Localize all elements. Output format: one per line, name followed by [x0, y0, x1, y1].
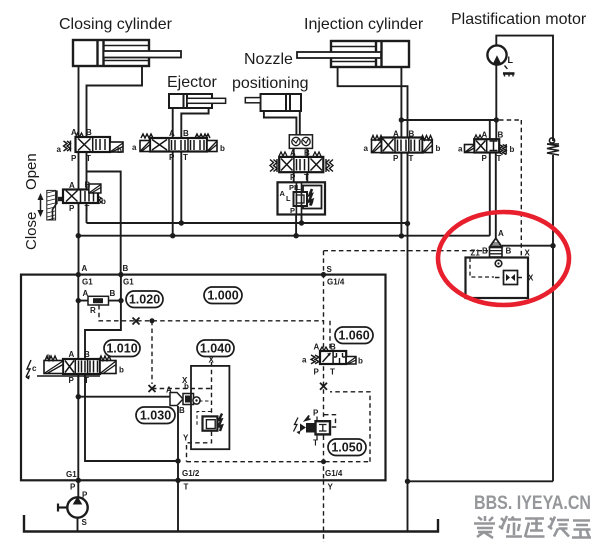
- dashed X horizontal to 1.040: [152, 388, 212, 390]
- junction injection A / y120 line: [399, 117, 404, 122]
- svg-text:P: P: [393, 154, 399, 163]
- wire nozzle B stub: [306, 148, 308, 157]
- svg-text:Z1: Z1: [471, 249, 481, 258]
- svg-text:R: R: [90, 306, 96, 315]
- svg-text:a: a: [302, 356, 307, 365]
- svg-text:a: a: [364, 144, 369, 153]
- svg-text:X: X: [525, 249, 531, 258]
- wire bus1: [87, 222, 408, 224]
- svg-text:B: B: [498, 131, 504, 140]
- wire nozzle valve to reducer: [294, 172, 308, 182]
- svg-text:B: B: [110, 289, 116, 298]
- svg-text:T: T: [409, 154, 414, 163]
- svg-text:A: A: [69, 350, 75, 359]
- dashed upper right vertical: [520, 120, 522, 258]
- svg-text:G1/2: G1/2: [182, 469, 200, 478]
- svg-text:1.030: 1.030: [140, 409, 171, 423]
- wire close-open valve T to bus1: [86, 203, 88, 223]
- junction P-bus / ejector T: [179, 220, 184, 225]
- svg-text:b: b: [220, 144, 225, 153]
- stack: [490, 248, 503, 258]
- closing cylinder: [73, 40, 181, 66]
- junction 1.020 A: [76, 298, 81, 303]
- svg-text:P: P: [482, 154, 488, 163]
- svg-text:Nozzle: Nozzle: [244, 51, 293, 68]
- svg-text:Closing cylinder: Closing cylinder: [59, 16, 173, 33]
- wire injection left port over to valve B: [338, 67, 408, 138]
- wire bottom right horizontal: [408, 480, 554, 482]
- tag oval 1.020: [126, 291, 163, 308]
- dashed B line to 1.060: [329, 321, 331, 351]
- svg-text:A: A: [71, 128, 77, 137]
- tag oval 1.050: [328, 439, 366, 456]
- svg-text:A: A: [498, 229, 504, 238]
- svg-text:1.060: 1.060: [338, 329, 369, 343]
- wire A-line x78.5 top to block: [78, 66, 80, 275]
- wire valve5 A stub: [489, 120, 491, 139]
- svg-text:Open: Open: [23, 153, 40, 190]
- wire valve5 B down to poppet: [495, 153, 497, 239]
- junction 1.020 B: [118, 298, 123, 303]
- injection cylinder: [297, 41, 409, 67]
- svg-text:L: L: [286, 194, 291, 203]
- wire 1.030 B down: [177, 406, 179, 461]
- wire reducer to bus1: [301, 215, 303, 224]
- wire valve5 P down to bus2 corner: [489, 153, 491, 236]
- svg-text:Plastification motor: Plastification motor: [451, 11, 587, 28]
- wire feed to 1.030: [78, 396, 170, 398]
- junction T-bus / injection P: [399, 233, 404, 238]
- svg-text:c: c: [32, 364, 37, 373]
- svg-text:Y: Y: [328, 483, 334, 492]
- svg-text:1.020: 1.020: [129, 293, 160, 307]
- svg-text:B: B: [183, 129, 189, 138]
- wire injection valve T down to bottom: [407, 153, 409, 482]
- svg-text:B: B: [86, 128, 92, 137]
- svg-text:Injection cylinder: Injection cylinder: [304, 16, 424, 33]
- junction bottom drain corner: [405, 479, 410, 484]
- svg-text:P: P: [290, 206, 295, 215]
- svg-text:B: B: [330, 343, 336, 352]
- svg-text:B: B: [482, 247, 488, 256]
- svg-text:BBS. IYEYA.CN: BBS. IYEYA.CN: [474, 493, 591, 514]
- dashed into 1.040 relief: [211, 362, 213, 417]
- junction 1.030 feed: [76, 394, 81, 399]
- svg-text:P: P: [71, 154, 77, 163]
- svg-text:A: A: [393, 130, 399, 139]
- dashed check valve X line: [495, 277, 525, 279]
- tag oval 1.060: [335, 327, 373, 344]
- svg-text:L: L: [508, 55, 514, 65]
- svg-text:b: b: [117, 146, 122, 155]
- wire ejector valve T to bus1: [180, 152, 182, 223]
- svg-text:1.040: 1.040: [200, 342, 231, 356]
- poppet triangle: [490, 238, 502, 247]
- svg-text:T: T: [85, 204, 90, 213]
- svg-text:1.050: 1.050: [331, 441, 362, 455]
- plug X on R pilot line: [133, 318, 140, 325]
- wire bus2: [78, 235, 490, 237]
- svg-text:P: P: [314, 368, 320, 377]
- junction motor line / y120 line: [494, 117, 499, 122]
- junction right rail / check line: [550, 243, 555, 248]
- tag oval 1.040: [197, 340, 234, 357]
- svg-text:T: T: [84, 376, 89, 385]
- svg-text:T: T: [497, 154, 502, 163]
- svg-text:A: A: [482, 131, 488, 140]
- svg-text:T: T: [183, 153, 188, 162]
- wire pump P stub: [77, 480, 79, 497]
- svg-text:b: b: [101, 197, 106, 206]
- svg-text:P: P: [82, 491, 88, 500]
- wire x407 to tank: [407, 481, 409, 531]
- wire injection right port to valve A: [400, 67, 402, 138]
- tag oval 1.000: [204, 287, 242, 304]
- junction 1.030 B drain: [175, 458, 180, 463]
- svg-text:T: T: [184, 483, 189, 492]
- svg-text:1.010: 1.010: [106, 342, 137, 356]
- svg-text:S: S: [327, 265, 333, 274]
- wire pump to tank: [77, 518, 79, 532]
- plug X at 1.030 pilot: [149, 385, 156, 392]
- wire motor down to valve: [495, 65, 497, 140]
- svg-text:A: A: [314, 343, 320, 352]
- svg-text:G1: G1: [66, 470, 77, 479]
- watermark chinese 爱液压论坛: [474, 516, 591, 538]
- wire ejector left port down: [172, 108, 174, 137]
- tank line: [24, 515, 438, 532]
- inner check square: [504, 271, 518, 285]
- svg-text:B: B: [123, 264, 129, 273]
- svg-text:S: S: [82, 518, 88, 527]
- double arrow: [38, 193, 44, 217]
- X plug marks group: [133, 318, 328, 393]
- svg-text:T: T: [330, 368, 335, 377]
- dashed 1.050 P detail: [324, 415, 336, 427]
- svg-text:B: B: [179, 406, 185, 415]
- svg-text:Close: Close: [23, 212, 40, 250]
- dashed Z1 horizontal: [324, 250, 489, 252]
- dashed S line vertical: [323, 251, 325, 479]
- dashed branch down to 1.030 X: [151, 321, 153, 384]
- svg-text:A: A: [169, 129, 175, 138]
- wire injection valve P down long: [400, 153, 402, 236]
- wire nozzle left port: [264, 111, 297, 135]
- svg-text:b: b: [119, 366, 124, 375]
- svg-text:P: P: [69, 204, 75, 213]
- wire ejector valve P to bus2: [172, 152, 174, 236]
- svg-text:B: B: [304, 149, 310, 158]
- svg-text:P: P: [69, 376, 75, 385]
- junction dots group: [76, 117, 556, 484]
- dashed R pilot from 1.020: [99, 305, 324, 321]
- wire right rail below coil: [552, 155, 554, 481]
- dashed long bottom line: [187, 461, 371, 463]
- junction port B: [118, 272, 123, 277]
- valve close-open: [63, 184, 102, 204]
- tag oval 1.030: [136, 407, 175, 424]
- dashed relief to Y: [187, 432, 212, 462]
- manifold block outline: [21, 275, 386, 481]
- inner dashed pilot: [470, 258, 494, 277]
- svg-text:X: X: [182, 376, 188, 385]
- wire G1/2 to tank: [177, 480, 179, 531]
- svg-text:1.000: 1.000: [207, 289, 238, 303]
- wall hatch symbol: [47, 190, 64, 220]
- svg-text:B: B: [409, 130, 415, 139]
- junction P-bus / injection T: [405, 221, 410, 226]
- svg-text:B: B: [506, 247, 512, 256]
- svg-text:P: P: [290, 173, 296, 182]
- junction port G1: [76, 478, 81, 483]
- wire close-open valve B up via y171 to port B: [87, 172, 121, 275]
- junction T-bus / A-line: [76, 233, 81, 238]
- coil / flow restrictor on right rail: [547, 138, 559, 155]
- wire A-line inside block to pump: [77, 275, 79, 481]
- svg-text:G1: G1: [82, 278, 93, 287]
- svg-text:A: A: [69, 181, 75, 190]
- svg-text:a: a: [57, 145, 62, 154]
- svg-text:b: b: [436, 144, 441, 153]
- junction pilot R line: [150, 318, 155, 323]
- svg-text:P: P: [70, 483, 76, 492]
- ejector cylinder: [169, 94, 226, 108]
- svg-text:a: a: [132, 143, 137, 152]
- svg-text:b: b: [358, 357, 363, 366]
- svg-text:A: A: [83, 289, 89, 298]
- svg-text:positioning: positioning: [232, 75, 309, 92]
- svg-text:a: a: [46, 352, 51, 361]
- wire motor top to right rail: [496, 36, 553, 141]
- tag oval 1.010: [104, 340, 140, 357]
- svg-text:T: T: [313, 439, 318, 448]
- svg-text:X: X: [528, 274, 534, 283]
- dashed box right side 1.050: [330, 392, 370, 462]
- nozzle positioning cylinder: [245, 94, 301, 111]
- svg-text:b: b: [510, 145, 515, 154]
- dashed S tail below block: [323, 480, 325, 542]
- svg-text:A: A: [280, 189, 286, 198]
- junction port G1/2: [175, 478, 180, 483]
- wire ejector right port to valve B: [181, 108, 208, 137]
- svg-text:A: A: [290, 149, 296, 158]
- junction T-bus / nozzle P: [293, 233, 298, 238]
- wire nozzle right port: [299, 111, 301, 135]
- red highlight ellipse: [438, 212, 569, 305]
- svg-text:Ejector: Ejector: [167, 74, 217, 91]
- junction T-bus / ejector P: [170, 233, 175, 238]
- svg-text:T: T: [86, 154, 91, 163]
- wire closing valve T down: [86, 152, 88, 190]
- dashed motor drain: [505, 66, 510, 72]
- wire 1.020 row: [78, 300, 121, 302]
- svg-text:G1/4: G1/4: [325, 469, 343, 478]
- svg-text:a: a: [458, 145, 463, 154]
- svg-text:A: A: [166, 386, 172, 395]
- body rect: [466, 258, 529, 299]
- wire y120 horizontal: [401, 119, 496, 121]
- svg-text:P: P: [313, 409, 319, 418]
- junction port A: [76, 272, 81, 277]
- svg-text:B: B: [84, 350, 90, 359]
- junction pilot Y line: [321, 459, 326, 464]
- svg-text:Y: Y: [183, 434, 189, 443]
- svg-text:T: T: [304, 173, 309, 182]
- svg-text:G1/4: G1/4: [327, 278, 345, 287]
- wire nozzle A stub: [293, 148, 295, 157]
- wire 1.010 B below to G1/2: [85, 374, 178, 480]
- svg-text:PIL: PIL: [289, 183, 301, 192]
- wire poppet to right rail: [502, 245, 553, 247]
- wire closing cyl right port: [87, 66, 143, 137]
- svg-text:B: B: [85, 181, 91, 190]
- wire reducer to bus2: [295, 215, 297, 236]
- svg-text:A: A: [82, 264, 88, 273]
- junction P-bus / nozzle T: [299, 220, 304, 225]
- plug X on S pilot line: [320, 383, 327, 390]
- dashed y120 stub: [499, 119, 521, 121]
- junction port S: [321, 272, 326, 277]
- ball circle: [495, 260, 502, 267]
- plastification motor: [487, 45, 514, 76]
- wire 1.010 A below: [77, 374, 79, 397]
- svg-text:G1: G1: [123, 278, 134, 287]
- svg-text:P: P: [169, 153, 175, 162]
- wire port B inside block: [85, 275, 121, 359]
